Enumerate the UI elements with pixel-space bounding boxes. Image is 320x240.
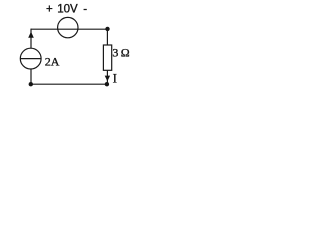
current source I1 2A (circle, bar, up arrow) bbox=[20, 32, 41, 69]
wire bottom bbox=[31, 83, 107, 85]
junction dot bottom-right bbox=[105, 82, 109, 86]
wire left lower bbox=[30, 69, 32, 84]
svg-text:-: - bbox=[83, 4, 87, 16]
svg-text:2A: 2A bbox=[45, 54, 60, 68]
voltage source V1 10V bbox=[58, 17, 78, 37]
svg-text:10V: 10V bbox=[57, 4, 78, 16]
svg-text:3: 3 bbox=[112, 45, 118, 59]
svg-text:+: + bbox=[46, 4, 53, 16]
svg-text:Ω: Ω bbox=[121, 45, 130, 59]
current arrow I (down) bbox=[105, 76, 110, 82]
junction dot top-right bbox=[105, 27, 109, 31]
wire left upper bbox=[30, 29, 32, 49]
label + 10V - bbox=[46, 4, 87, 16]
wire right upper bbox=[106, 29, 108, 45]
label 3 ohm bbox=[112, 45, 129, 59]
resistor R1 3 ohm bbox=[103, 45, 111, 70]
svg-text:I: I bbox=[113, 70, 117, 85]
wire top bbox=[31, 28, 107, 30]
wire right lower bbox=[106, 70, 108, 84]
junction dot bottom-left bbox=[29, 82, 33, 86]
